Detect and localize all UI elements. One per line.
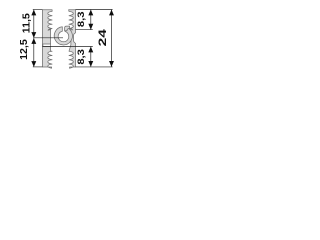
dimension line 24 bbox=[111, 10, 113, 67]
extension line 8,3 top end bbox=[76, 29, 93, 31]
svg-text:8,3: 8,3 bbox=[76, 11, 86, 27]
arrow up 12,5 top bbox=[31, 38, 36, 44]
left leg with serrated right edge bbox=[42, 10, 52, 68]
svg-text:12,5: 12,5 bbox=[19, 39, 30, 60]
dimension line 8,3 top bbox=[90, 10, 92, 30]
extension line top left bbox=[33, 9, 43, 11]
svg-text:11,5: 11,5 bbox=[22, 13, 33, 33]
arrow up 8,3 bottom bbox=[88, 47, 93, 53]
arrow down 8,3 bottom bbox=[88, 61, 93, 67]
dimension line 8,3 bottom bbox=[90, 47, 92, 67]
dimension line 11,5/12,5 bbox=[33, 10, 35, 67]
arrow down 24 bbox=[109, 61, 114, 67]
C-ring screw channel bbox=[54, 27, 72, 45]
extension line bottom right bbox=[76, 66, 113, 68]
arrow up 24 bbox=[109, 10, 114, 16]
extension line mid left to ring center bbox=[33, 37, 63, 39]
arrow up 8,3 top bbox=[88, 10, 93, 16]
extension line 8,3 bottom start bbox=[42, 46, 92, 48]
svg-text:8,3: 8,3 bbox=[76, 49, 86, 65]
arrow down 12,5 bottom bbox=[31, 61, 36, 67]
svg-text:24: 24 bbox=[96, 29, 108, 47]
right leg with serrated left edge and pinched right side bbox=[69, 10, 76, 68]
arrow down 8,3 top bbox=[88, 24, 93, 30]
arrow down 11,5 bottom bbox=[31, 32, 36, 38]
extension line bottom left bbox=[33, 66, 43, 68]
arrow up 11,5 top bbox=[31, 10, 36, 16]
bridge from ring slot wall to right leg bbox=[65, 26, 70, 31]
extension line top right bbox=[76, 9, 113, 11]
slot window in left leg bbox=[43, 44, 51, 46]
